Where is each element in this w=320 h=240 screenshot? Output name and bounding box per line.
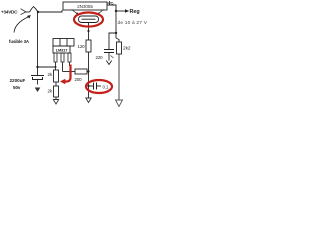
ground arrow [35, 88, 41, 93]
wire to ground [55, 97, 57, 100]
annotation arrow to fuse [14, 17, 28, 33]
node output junction [115, 10, 117, 12]
wire output with arrow [116, 10, 125, 12]
svg-text:200: 200 [75, 77, 83, 82]
pass element (in red oval) [79, 16, 99, 23]
capacitor C2 220uF [104, 49, 114, 51]
svg-text:LM317: LM317 [56, 48, 68, 53]
svg-text:+34VDC: +34VDC [1, 9, 18, 14]
wire output rail down [115, 11, 117, 38]
wire jog to resistor [116, 38, 119, 42]
pin legs [54, 53, 57, 62]
node junction at fuse output [37, 11, 39, 13]
wire down to bottom arrow [118, 54, 120, 100]
svg-text:fusible 3A: fusible 3A [9, 39, 30, 44]
red oval annotation 2 [86, 80, 112, 93]
capacitor C3 0.1 [89, 85, 94, 87]
svg-text:0.1: 0.1 [103, 84, 109, 89]
regulator U1 LM317 package [53, 39, 74, 47]
ground arrow big [116, 100, 123, 107]
wire from box to output corner [107, 5, 116, 11]
wire [55, 82, 57, 86]
resistor R3 2k2 [117, 42, 122, 54]
svg-text:Reg: Reg [130, 9, 140, 15]
svg-text:50v: 50v [13, 85, 21, 90]
fuse F1 (circuit-breaker hump) [30, 7, 39, 12]
svg-text:120: 120 [78, 44, 86, 49]
wire cap to ground [108, 53, 110, 61]
resistor R4 200 [63, 71, 76, 73]
wire left rail down [37, 12, 39, 76]
wire stub to capacitor branch [109, 33, 116, 50]
wire [26, 11, 30, 13]
svg-text:de 10 à 27 V: de 10 à 27 V [118, 20, 148, 26]
capacitor C1 2200uF [31, 75, 44, 77]
wire rail to LM317 [38, 66, 56, 68]
red oval annotation 1 [74, 13, 103, 27]
svg-text:2N3055: 2N3055 [77, 4, 93, 9]
ground arrow [53, 100, 58, 105]
wire 120 top to pass element [88, 23, 90, 41]
ground arrow [106, 61, 111, 65]
wire 120 bottom [88, 52, 90, 98]
node rail junction [36, 66, 38, 68]
svg-text:220: 220 [96, 55, 104, 60]
transistor Q1 label box 2N3055 [63, 2, 107, 10]
resistor R2 2k (pot lower) [54, 86, 59, 97]
node branch junction [115, 32, 117, 34]
red wiper annotation [64, 65, 71, 82]
annotation arrows into oval [72, 10, 78, 14]
svg-text:2k2: 2k2 [123, 46, 131, 52]
ground arrow [86, 98, 91, 103]
resistor R5 120 [86, 40, 91, 52]
wire top rail [38, 10, 62, 12]
resistor R1 2k (pot upper) [54, 70, 59, 82]
input connector chevron [21, 9, 27, 15]
pin 5 tick [108, 2, 112, 4]
svg-text:2200uF: 2200uF [10, 78, 26, 83]
